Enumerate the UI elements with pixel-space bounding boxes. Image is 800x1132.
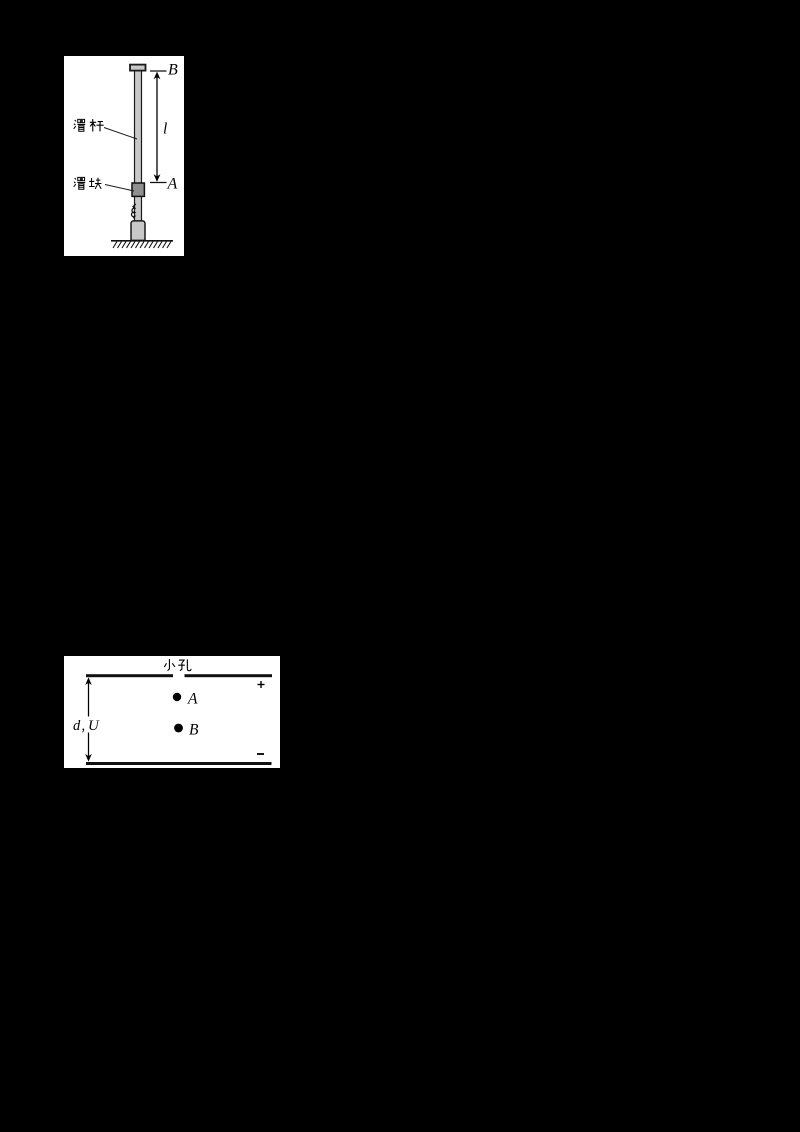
point B dot <box>174 724 183 733</box>
svg-text:B: B <box>168 61 178 78</box>
bottom plate <box>86 762 272 765</box>
panel 2: parallel plates diagram <box>64 656 280 768</box>
base block <box>131 221 145 241</box>
svg-text:d: d <box>73 718 81 734</box>
label 滑杆 (rod) drawn strokes <box>74 119 104 131</box>
top plate left segment <box>86 674 173 677</box>
slider block (滑块) <box>132 183 144 196</box>
panel 1: rod and slider diagram <box>64 56 184 256</box>
svg-text:,: , <box>82 718 86 734</box>
point A dot <box>173 693 181 701</box>
tick at B <box>150 70 167 72</box>
top cap of rod <box>130 65 146 71</box>
svg-text:A: A <box>187 691 198 708</box>
label d,U (white mask over arrow line) <box>71 717 102 733</box>
svg-text:B: B <box>189 722 199 739</box>
svg-text:A: A <box>167 175 178 192</box>
svg-text:U: U <box>88 718 100 734</box>
spring squiggle on rod <box>131 204 135 218</box>
minus sign <box>257 753 264 755</box>
label 小孔 (small hole) drawn strokes <box>164 659 191 671</box>
leader line to slider <box>105 185 134 192</box>
ground line <box>111 240 173 242</box>
plus sign <box>258 681 265 688</box>
dimension arrow l (double headed) <box>154 72 161 182</box>
label 滑块 (slider) drawn strokes <box>74 177 102 189</box>
svg-text:l: l <box>163 121 167 138</box>
ground hatching <box>113 242 171 249</box>
tick at A <box>150 182 167 184</box>
top plate right segment <box>185 674 273 677</box>
leader line to rod <box>104 128 137 140</box>
rod (滑杆) body <box>135 66 142 223</box>
dimension arrow d,U (double headed) <box>85 677 92 761</box>
